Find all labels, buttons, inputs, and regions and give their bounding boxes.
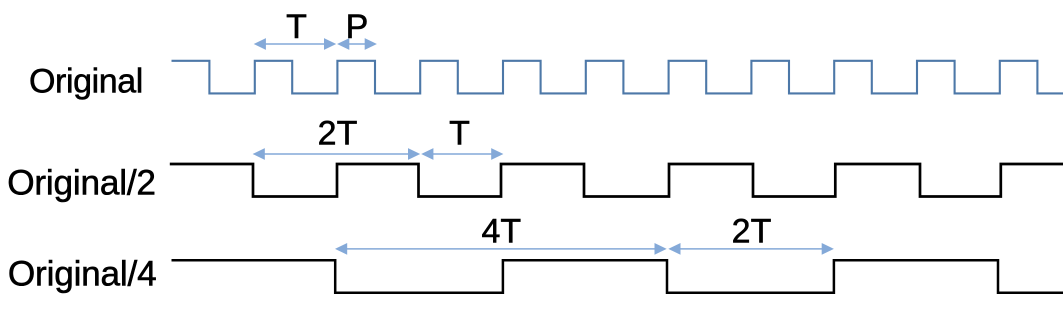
svg-text:T: T [449, 114, 470, 152]
dimension arrow 2T (row 2) [253, 148, 421, 160]
dimension arrow T (row 2) [421, 148, 503, 160]
svg-text:Original/4: Original/4 [8, 255, 157, 294]
svg-text:4T: 4T [481, 212, 521, 250]
dimension arrow 2T (row 3) [668, 243, 834, 255]
dimension arrow T (row 1) [254, 38, 337, 50]
svg-text:2T: 2T [732, 212, 772, 250]
svg-text:P: P [346, 8, 369, 46]
svg-text:T: T [286, 8, 307, 46]
waveform Original/2 [170, 164, 1063, 197]
svg-text:Original/2: Original/2 [7, 163, 156, 202]
svg-text:Original: Original [29, 63, 143, 101]
waveform Original/4 [172, 260, 1063, 293]
dimension arrow P (row 1) [337, 38, 377, 50]
svg-text:2T: 2T [318, 114, 358, 152]
waveform Original (clock) [172, 61, 1063, 94]
dimension arrow 4T (row 3) [335, 243, 667, 255]
